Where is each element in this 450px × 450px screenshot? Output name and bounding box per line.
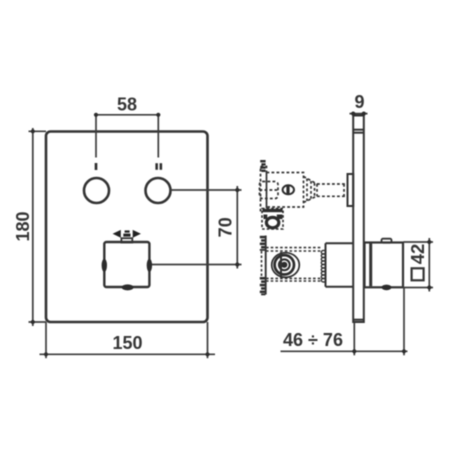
svg-text:42: 42	[407, 244, 428, 265]
svg-text:58: 58	[117, 95, 137, 115]
svg-text:46 ÷ 76: 46 ÷ 76	[283, 330, 343, 350]
svg-text:70: 70	[216, 217, 236, 237]
svg-text:180: 180	[13, 211, 33, 241]
svg-text:150: 150	[112, 333, 142, 353]
svg-text:9: 9	[354, 92, 364, 112]
